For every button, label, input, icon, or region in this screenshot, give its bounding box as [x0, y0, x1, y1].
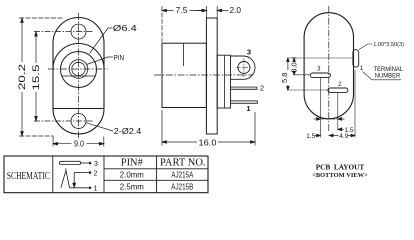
svg-text:PIN: PIN — [114, 53, 125, 62]
svg-text:15.5: 15.5 — [31, 64, 41, 90]
dimension 7.5 — [162, 6, 206, 42]
svg-text:1: 1 — [246, 104, 250, 113]
svg-text:NUMBER: NUMBER — [375, 72, 401, 79]
svg-text:SCHEMATIC: SCHEMATIC — [7, 171, 50, 182]
front view barrel chord line — [62, 75, 95, 77]
svg-text:3: 3 — [247, 48, 251, 57]
side view pin 1 — [231, 101, 258, 104]
svg-text:1.00*3.50(3): 1.00*3.50(3) — [373, 42, 404, 48]
svg-text:2: 2 — [260, 84, 264, 93]
schematic symbol pin3 lead — [81, 162, 89, 164]
table row line 1 — [104, 168, 208, 170]
dimension 3.0 — [292, 58, 297, 75]
front view top mounting hole — [71, 24, 86, 39]
front view horizontal centerline — [48, 68, 108, 70]
svg-text:7.5: 7.5 — [176, 5, 188, 15]
svg-text:AJ215B: AJ215B — [171, 182, 193, 192]
label terminal number with leader — [363, 72, 402, 80]
front view center pin circle — [72, 62, 85, 75]
front view chord line at bottom arc start — [53, 108, 104, 110]
dimension 2.0 — [196, 6, 229, 18]
svg-text:3: 3 — [94, 161, 98, 168]
pcb layout stadium outline — [304, 13, 353, 119]
label dia 6.4 with leader — [90, 28, 113, 54]
svg-text:PCB LAYOUT: PCB LAYOUT — [316, 162, 365, 171]
svg-text:2.0mm: 2.0mm — [120, 170, 144, 180]
table row line 2 — [104, 179, 208, 181]
pcb layout vertical centerline — [328, 6, 330, 131]
table column line 3 — [156, 156, 158, 193]
front view bottom mounting hole — [71, 114, 86, 129]
pcb layout slot 3 — [310, 73, 330, 78]
schematic symbol pin3 dot — [89, 162, 92, 165]
front view flange stadium outline — [53, 18, 104, 135]
side view lug hole crosshair — [237, 59, 253, 78]
schematic symbol pin tip tick — [65, 168, 67, 170]
svg-text:2.5mm: 2.5mm — [120, 182, 144, 192]
side view terminal 3 solder lug — [231, 56, 256, 79]
table outer border — [4, 156, 208, 193]
front view body circle arc — [53, 44, 104, 69]
front view bottom hole centerline — [34, 120, 93, 122]
svg-text:2.0: 2.0 — [230, 5, 242, 15]
bottom chained dimension arrows row — [314, 118, 345, 121]
side view lug hole — [238, 62, 250, 74]
pcb layout slot2 vertical extension — [337, 93, 339, 131]
svg-text:1.5: 1.5 — [306, 133, 315, 140]
pcb layout slot3 vertical extension — [319, 78, 321, 138]
label 1.00x3.50(3) with leader — [359, 44, 373, 50]
svg-text:1: 1 — [93, 185, 97, 192]
svg-text:16.0: 16.0 — [199, 137, 217, 147]
svg-text:Ø6.4: Ø6.4 — [113, 23, 137, 33]
dimension 1.5 left and 4.9 — [315, 134, 355, 137]
svg-text:<BOTTOM VIEW>: <BOTTOM VIEW> — [312, 172, 368, 179]
side view body rectangle — [162, 43, 206, 107]
schematic symbol pin1 dot — [89, 187, 92, 190]
side view rear housing inner line — [223, 55, 225, 108]
schematic symbol center pin contact — [61, 171, 70, 188]
svg-text:5.8: 5.8 — [280, 73, 289, 83]
side view body seam line — [183, 43, 185, 66]
dimension 9.0 — [53, 137, 104, 147]
front view top hole centerline — [34, 31, 93, 33]
svg-text:2: 2 — [94, 170, 98, 177]
pcb layout slot 2 — [328, 88, 348, 92]
table column line 1 — [52, 156, 54, 193]
pcb layout slot1 center extension line — [287, 57, 353, 59]
schematic symbol pin2 lead — [74, 172, 88, 174]
svg-text:2-Ø2.4: 2-Ø2.4 — [114, 126, 142, 136]
side view pin 2 — [231, 87, 258, 90]
dimension 20.2 — [19, 18, 63, 136]
dimension 5.8 — [287, 58, 290, 90]
svg-text:9.0: 9.0 — [74, 139, 84, 149]
svg-text:PART NO.: PART NO. — [160, 158, 206, 169]
side view rear housing — [217, 55, 230, 108]
side view main centerline — [154, 74, 252, 76]
schematic symbol pin1 lead — [70, 187, 89, 189]
svg-text:AJ215A: AJ215A — [171, 170, 193, 180]
dimension 16.0 — [162, 110, 255, 146]
svg-text:3.0: 3.0 — [290, 62, 299, 72]
pcb layout slot2 center extension line — [287, 89, 328, 91]
front view pin base ring — [69, 60, 88, 79]
schematic symbol pin2 dot — [89, 171, 92, 174]
pcb layout slot3 center extension line — [293, 74, 310, 76]
pcb layout slot 1 — [353, 50, 359, 68]
svg-text:20.2: 20.2 — [17, 64, 27, 90]
front view vertical centerline — [78, 13, 80, 140]
pcb layout slot1 vertical extension — [354, 70, 356, 138]
table column line 2 — [103, 156, 105, 193]
front view barrel opening circle dia 6.4 — [61, 52, 97, 88]
schematic symbol sleeve contact — [59, 161, 80, 164]
svg-text:PIN#: PIN# — [121, 158, 143, 169]
label PIN with leader — [87, 57, 114, 65]
side view flange rectangle — [206, 18, 217, 134]
svg-text:4.9: 4.9 — [339, 133, 348, 140]
dimension 15.5 — [35, 32, 38, 121]
schematic symbol switch arm with arrow — [73, 173, 76, 188]
dimension 1.5 right — [338, 128, 344, 131]
label 2-dia2.4 with leader — [86, 123, 113, 131]
